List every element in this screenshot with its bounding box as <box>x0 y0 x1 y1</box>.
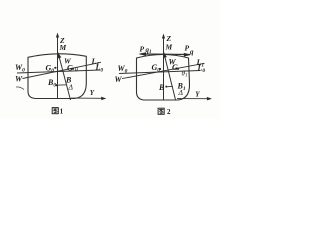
svg-text:G: G <box>172 63 178 72</box>
force rod line fig2 <box>141 53 191 56</box>
svg-text:Δ: Δ <box>68 83 74 92</box>
svg-text:W0: W0 <box>15 63 25 74</box>
hull outline fig1 <box>28 54 86 99</box>
Y axis fig1 <box>71 97 106 101</box>
point G fig2 <box>177 68 179 70</box>
svg-text:M: M <box>59 43 67 52</box>
svg-text:W0: W0 <box>118 64 128 75</box>
svg-text:Y: Y <box>90 89 95 97</box>
svg-text:L1: L1 <box>196 58 205 69</box>
svg-text:B: B <box>158 83 165 92</box>
svg-text:G0: G0 <box>46 64 55 75</box>
waterline W0L0 fig1 <box>17 70 100 73</box>
stray mark fig1 left <box>16 87 24 90</box>
tie line B0-B fig1 <box>57 84 67 86</box>
svg-text:Δ: Δ <box>178 88 184 97</box>
svg-text:W: W <box>15 75 23 84</box>
weight force line fig2 <box>163 52 175 100</box>
left force arrow P fig2 <box>138 52 146 56</box>
svg-text:Y: Y <box>195 90 200 98</box>
svg-text:P: P <box>185 44 190 53</box>
svg-text:G0: G0 <box>152 63 161 74</box>
inclined waterline W1L1 fig2 <box>122 63 205 78</box>
caption fig2 <box>158 108 171 116</box>
waterline W0L0 fig2 <box>119 71 200 74</box>
point G0 fig2 <box>159 68 161 70</box>
point B fig2 <box>165 86 167 88</box>
svg-text:G: G <box>67 63 73 72</box>
point B0 fig1 <box>56 84 58 86</box>
svg-text:P: P <box>140 45 145 54</box>
inclined waterline W1L1 fig1 <box>23 62 102 78</box>
svg-text:1: 1 <box>60 108 64 116</box>
svg-text:q1: q1 <box>146 46 152 55</box>
Y axis fig2 <box>177 97 212 101</box>
right force arrow P fig2 <box>184 53 192 57</box>
point G fig1 <box>72 68 74 70</box>
Z axis fig1 <box>56 33 59 99</box>
weight force line fig1 <box>58 53 71 101</box>
svg-text:M: M <box>165 43 173 52</box>
svg-text:q: q <box>190 48 194 56</box>
point G0 fig1 <box>54 67 56 69</box>
caption fig1 <box>52 108 63 116</box>
svg-text:θ: θ <box>75 68 78 74</box>
hull outline fig2 <box>137 55 190 101</box>
svg-text:W: W <box>115 75 123 84</box>
Z axis fig2 <box>162 34 165 100</box>
svg-text:B0: B0 <box>47 78 56 89</box>
tie line B-B1 fig2 <box>166 85 173 88</box>
svg-text:2: 2 <box>167 108 171 116</box>
svg-text:L1: L1 <box>91 57 100 68</box>
